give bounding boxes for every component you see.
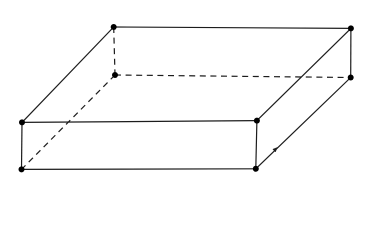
node A top back left xyxy=(111,24,117,30)
wire right bottom edge H-F xyxy=(256,78,351,169)
wire left front vertical C-G xyxy=(21,122,24,169)
wire right back vertical B-F xyxy=(350,28,352,77)
wire left top edge A-C xyxy=(22,27,114,122)
node D top front right xyxy=(254,118,260,124)
wire hidden vertical A-E (dashed) xyxy=(114,27,115,75)
node C top front left xyxy=(19,119,25,125)
arrow on edge H-F xyxy=(273,147,278,152)
node B top back right xyxy=(348,25,354,31)
wire front bottom edge G-H xyxy=(22,168,256,171)
wire hidden bottom back edge E-F (dashed) xyxy=(115,75,351,78)
wire right top edge B-D xyxy=(257,28,351,120)
wire front top edge C-D xyxy=(22,121,257,123)
node G bottom front left xyxy=(19,166,25,172)
node H bottom front right xyxy=(253,166,259,172)
node F bottom back right xyxy=(348,75,354,81)
node E hidden bottom back left xyxy=(112,72,118,78)
wire top back edge A-B xyxy=(114,27,351,28)
wire right front vertical D-H xyxy=(256,121,257,169)
wire hidden left bottom edge E-G (dashed) xyxy=(22,75,116,169)
